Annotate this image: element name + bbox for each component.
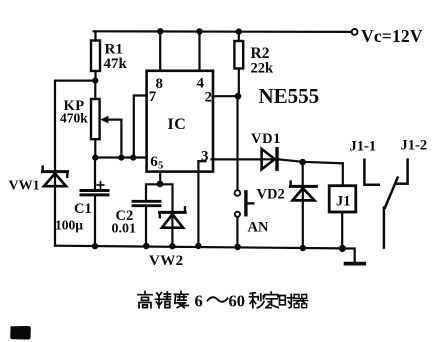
- svg-text:J1: J1: [336, 193, 351, 209]
- wire pin 3 output: [212, 158, 262, 160]
- push button AN: [235, 190, 241, 196]
- wire pin 1 ground: [197, 161, 199, 246]
- svg-text:2: 2: [205, 90, 213, 106]
- svg-text:60: 60: [229, 292, 246, 311]
- junction AN bottom: [234, 244, 241, 251]
- wire pin 4 to rail: [198, 31, 200, 70]
- junction VD2 bottom: [300, 245, 306, 251]
- svg-text:C1: C1: [74, 201, 92, 217]
- wire: timing node to pin 6: [95, 156, 146, 158]
- wire pin 2: [213, 95, 239, 97]
- node pin5/C2/VW2: [157, 181, 164, 188]
- svg-text:VD2: VD2: [257, 187, 285, 203]
- wire pin 8 to rail: [159, 31, 161, 70]
- zener diode VW2: [160, 184, 173, 211]
- resistor R2: [238, 32, 240, 41]
- plus sign of C1: [97, 182, 103, 188]
- contact J1-1: [364, 160, 378, 185]
- junction R2 top: [236, 28, 242, 34]
- junction C2 bottom: [143, 243, 149, 249]
- svg-text:5: 5: [158, 160, 163, 171]
- svg-text:22k: 22k: [251, 60, 275, 76]
- svg-text:8: 8: [156, 76, 164, 92]
- terminal Vc (open circle): [352, 29, 358, 35]
- wire pin 5: [159, 172, 161, 184]
- contact J1-2: [406, 160, 409, 182]
- node junction R1/KP/VW1: [92, 78, 98, 84]
- junction pin 4: [196, 28, 202, 34]
- wire: bottom ground rail: [55, 246, 342, 249]
- wiper arrow of KP: [107, 118, 121, 120]
- svg-text:Vc=12V: Vc=12V: [361, 26, 423, 46]
- junction VW2 bottom: [169, 243, 175, 249]
- junction pin1/rail: [195, 243, 201, 249]
- op-amp style box: IC U1 (NE555): [147, 71, 213, 172]
- diode VD1: [262, 149, 275, 169]
- scan mark bottom-left: [10, 326, 31, 340]
- char 秒: [250, 293, 265, 308]
- char 高: [138, 292, 152, 308]
- char 精: [156, 292, 171, 308]
- junction pin7: [130, 155, 136, 161]
- char 器: [294, 295, 308, 308]
- junction pin 2 / R2: [235, 93, 242, 100]
- resistor R1: [94, 31, 96, 40]
- svg-text:VW1: VW1: [9, 179, 40, 194]
- caption: 高精度 6~60 秒定时器: [138, 292, 308, 311]
- wire: +V power rail: [94, 30, 352, 33]
- svg-text:100µ: 100µ: [55, 218, 83, 233]
- svg-text:47k: 47k: [104, 56, 128, 72]
- svg-text:7: 7: [149, 89, 157, 105]
- zener diode VW1: [43, 167, 68, 177]
- relay J1: [342, 163, 344, 185]
- capacitor C2: [146, 184, 160, 200]
- junction wiper: [118, 155, 124, 161]
- svg-text:0.01: 0.01: [112, 222, 137, 237]
- svg-text:AN: AN: [248, 219, 269, 235]
- char 度: [174, 292, 188, 308]
- svg-text:VW2: VW2: [149, 253, 184, 269]
- junction pin 8: [157, 28, 163, 34]
- junction KP bottom: [92, 155, 98, 161]
- diode VD2: [302, 162, 304, 185]
- wire to VW1: [55, 81, 95, 171]
- wire trigger column down to AN: [236, 96, 238, 190]
- svg-text:NE555: NE555: [259, 84, 320, 108]
- svg-text:470k: 470k: [60, 110, 88, 125]
- svg-text:4: 4: [197, 76, 205, 92]
- wire pin 7: [134, 96, 147, 158]
- junction VD1/VD2: [299, 159, 306, 166]
- ground: [342, 249, 354, 263]
- capacitor C1: [94, 158, 96, 190]
- char 定: [265, 292, 279, 308]
- svg-text:VD1: VD1: [251, 131, 281, 147]
- svg-text:IC: IC: [168, 116, 187, 133]
- svg-text:J1-2: J1-2: [401, 138, 428, 154]
- char 时: [280, 295, 294, 308]
- junction J1 bottom / ground: [339, 245, 346, 252]
- svg-text:6: 6: [195, 292, 203, 311]
- potentiometer KP: [94, 81, 96, 99]
- junction C1 bottom: [92, 243, 98, 249]
- svg-text:J1-1: J1-1: [350, 139, 377, 155]
